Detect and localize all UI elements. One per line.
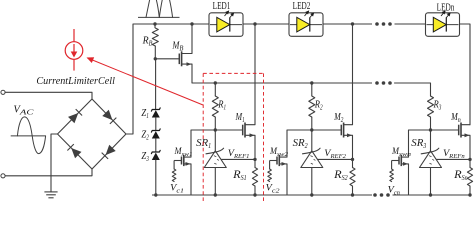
svg-text:2: 2 <box>146 134 149 142</box>
resistor R2 <box>311 83 313 96</box>
wire: AC bottom terminal to bridge bottom corner <box>5 169 92 176</box>
transistor MB <box>178 54 180 65</box>
wire: gate node row <box>287 129 341 131</box>
zener diode Z2 <box>151 129 160 132</box>
svg-text:Sn: Sn <box>462 173 468 182</box>
svg-text:3: 3 <box>145 155 149 163</box>
svg-text:AC: AC <box>18 109 33 117</box>
svg-text:SR: SR <box>293 138 305 149</box>
gate feed Vc2 <box>269 161 271 170</box>
svg-text:REF2: REF2 <box>329 153 346 160</box>
node: gate of Mn <box>429 128 432 131</box>
svg-text:R: R <box>453 169 462 181</box>
svg-text:2: 2 <box>305 142 308 150</box>
terminal: AC input top <box>1 90 5 94</box>
wire: top bus <box>133 23 209 25</box>
bridge rectifier diodes <box>58 99 93 134</box>
node: gate of M2 <box>310 128 313 131</box>
transistor Mswn <box>398 157 400 165</box>
resistor RB <box>154 24 156 28</box>
svg-text:R: R <box>333 169 342 181</box>
wire: LED tap down to M2 drain <box>352 24 354 125</box>
wire: AC top terminal to bridge top corner <box>5 92 92 99</box>
svg-text:3: 3 <box>422 142 426 150</box>
waveform icon (rectified triangles) <box>138 16 180 18</box>
svg-text:2: 2 <box>341 116 344 124</box>
red current source symbol <box>65 42 83 60</box>
svg-text:R: R <box>142 36 149 47</box>
svg-text:REFn: REFn <box>448 153 465 160</box>
wire: bridge right corner riser to top bus <box>126 24 133 134</box>
wire: ground rail <box>152 194 372 196</box>
svg-text:c1: c1 <box>176 188 184 195</box>
svg-text:CurrentLimiterCell: CurrentLimiterCell <box>36 75 115 87</box>
node: bias rail to R1 <box>214 81 217 84</box>
svg-text:S1: S1 <box>241 173 247 182</box>
zener diode Z3 <box>151 150 160 153</box>
svg-text:sw1: sw1 <box>182 151 193 158</box>
red arrow from cell to current source <box>88 58 204 105</box>
wire: bus after LEDn, bends down to Mn drain <box>460 24 471 125</box>
ground <box>44 191 57 193</box>
SR latch SR2 <box>311 130 313 151</box>
LED box LEDn <box>426 13 460 37</box>
transistor Msw2 <box>276 157 278 165</box>
diode bridge D1 (left-top) <box>68 113 78 123</box>
svg-text:n: n <box>458 116 461 124</box>
wire: zener column to ground rail <box>155 160 157 195</box>
zener diode Z1 <box>151 108 160 111</box>
wire: gate bias rail from MB source <box>192 82 372 84</box>
transistor M1 <box>242 125 244 136</box>
wire: gate node row <box>191 129 243 131</box>
dots: LED string continuation <box>375 22 379 26</box>
AC sine waveform icon <box>11 135 46 137</box>
gate feed Vcn <box>391 161 393 170</box>
dots: bias rail continuation <box>375 81 379 85</box>
svg-text:2: 2 <box>320 104 323 112</box>
svg-text:1: 1 <box>208 142 211 150</box>
wire: gate node row <box>409 129 459 131</box>
svg-text:c2: c2 <box>272 188 280 195</box>
SR latch SR3 <box>430 130 432 151</box>
red dashed box around first cell <box>203 72 263 74</box>
svg-text:S2: S2 <box>342 173 348 182</box>
svg-text:B: B <box>179 45 184 53</box>
transistor M2 <box>340 125 342 136</box>
svg-text:sw2: sw2 <box>277 151 289 158</box>
wire/label VREF1 <box>221 158 255 160</box>
node: MB gate bias <box>154 57 157 60</box>
diode bridge D2 (top-right) <box>102 110 112 120</box>
svg-text:SR: SR <box>411 138 423 149</box>
resistor R1 <box>214 83 216 96</box>
wire: bias rail to R3 <box>395 83 431 96</box>
wire/label VREF2 <box>318 158 353 160</box>
wire: bridge left corner to ground <box>51 134 58 192</box>
diode bridge D4 (right-bottom) <box>106 145 116 155</box>
transistor Msw1 <box>181 157 183 165</box>
node: bias rail to R2 <box>310 81 313 84</box>
svg-text:1: 1 <box>242 116 245 124</box>
wire/label VREFn <box>436 158 470 160</box>
svg-text:R: R <box>232 169 241 181</box>
resistor RS2 <box>352 159 354 167</box>
node: gate of M1 <box>214 128 217 131</box>
svg-text:1: 1 <box>224 104 227 112</box>
svg-text:LED2: LED2 <box>293 1 311 12</box>
terminal: AC input bottom <box>1 174 5 178</box>
resistor RS1 <box>254 159 256 167</box>
SR latch SR1 <box>214 130 216 151</box>
LED box LED2 <box>289 13 323 37</box>
resistor R3 <box>428 96 434 117</box>
svg-text:SR: SR <box>196 138 208 149</box>
svg-text:B: B <box>149 40 153 48</box>
svg-text:REF1: REF1 <box>233 153 250 160</box>
svg-text:cn: cn <box>394 189 401 196</box>
transistor Mn <box>458 125 460 136</box>
svg-text:LED1: LED1 <box>213 1 231 12</box>
svg-text:LEDn: LEDn <box>437 3 455 14</box>
wire: LED tap down to M1 drain <box>254 24 256 125</box>
svg-text:swn: swn <box>399 151 412 158</box>
resistor RSn <box>469 159 471 167</box>
wire: zener column <box>155 59 157 110</box>
LED box LED1 <box>209 13 243 37</box>
svg-text:3: 3 <box>438 104 442 112</box>
gate feed Vc1 <box>173 161 175 170</box>
diode bridge D3 (bottom-left) <box>71 148 81 158</box>
svg-text:1: 1 <box>146 112 149 120</box>
dots: ground rail continuation <box>373 193 377 197</box>
